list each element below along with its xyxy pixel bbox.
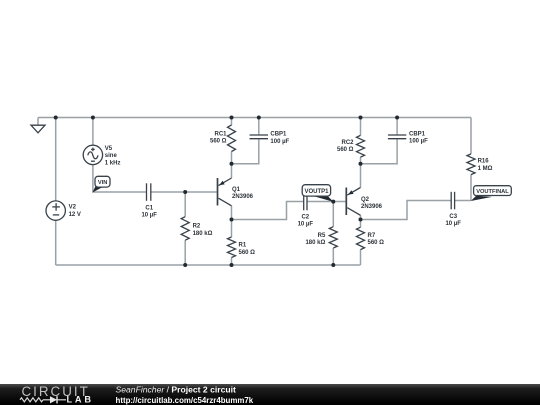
junction bottom rail / R2 — [183, 263, 187, 267]
wire V2 to top rail — [55, 118, 57, 201]
value label RC1 560 Ohm — [210, 131, 227, 144]
wire Q1 collector stub — [231, 206, 233, 220]
wire V5 to top rail — [92, 118, 94, 146]
capacitor C3 — [451, 192, 454, 210]
svg-text:R2: R2 — [193, 224, 201, 230]
wire Q1 emitter stub — [231, 164, 233, 178]
svg-text:CBP1: CBP1 — [270, 132, 287, 138]
svg-text:180 kΩ: 180 kΩ — [305, 240, 325, 246]
node VIN flag — [93, 176, 111, 192]
junction base wire / R2 — [183, 190, 187, 194]
wire Q1 collector to C2 — [232, 202, 304, 220]
node VOUTP1 flag — [302, 185, 333, 202]
svg-text:VIN: VIN — [98, 180, 107, 186]
resistor R7 — [357, 227, 365, 249]
wire RC2 leads — [360, 118, 362, 164]
svg-text:http://circuitlab.com/c54rzr4b: http://circuitlab.com/c54rzr4bumm7k — [116, 396, 254, 405]
svg-text:R16: R16 — [478, 159, 490, 165]
svg-text:Q2: Q2 — [361, 197, 370, 203]
ground — [31, 118, 45, 133]
CircuitLab logo resistor squiggle — [20, 398, 43, 402]
value label R1 560 Ohm — [239, 243, 256, 256]
CircuitLab logo diode — [50, 396, 57, 403]
wire V5 to node VIN and C1 — [93, 165, 147, 192]
svg-text:2N3906: 2N3906 — [232, 194, 254, 200]
svg-text:VOUTP1: VOUTP1 — [304, 189, 329, 195]
junction RC2 / CBP2 / Q2 emitter — [359, 162, 363, 166]
resistor RC1 — [228, 125, 236, 152]
wire top supply rail — [38, 117, 471, 119]
wire C3 to node VOUTFINAL — [455, 200, 471, 202]
wire R7 leads — [360, 220, 362, 266]
svg-text:560 Ω: 560 Ω — [368, 240, 385, 246]
value label R7 560 Ohm — [368, 233, 385, 246]
resistor R1 — [228, 237, 236, 258]
svg-text:LAB: LAB — [67, 395, 94, 405]
resistor R2 — [181, 217, 189, 241]
svg-text:RC2: RC2 — [341, 140, 354, 146]
capacitor CBP1 — [250, 135, 269, 139]
wire Q2 collector to C3 — [361, 201, 452, 220]
wire CBP1 leads — [232, 118, 259, 164]
svg-text:C2: C2 — [301, 214, 309, 220]
svg-text:100 µF: 100 µF — [270, 139, 289, 145]
wire C1 to Q1 base — [151, 191, 217, 193]
transistor Q2 (PNP 2N3906) — [346, 188, 360, 216]
svg-text:2N3906: 2N3906 — [361, 204, 383, 210]
svg-text:V5: V5 — [105, 146, 113, 152]
capacitor C2 — [304, 193, 307, 211]
resistor R16 — [467, 154, 475, 175]
svg-text:C3: C3 — [449, 214, 457, 220]
svg-text:10 µF: 10 µF — [141, 213, 157, 219]
node VOUTFINAL flag — [471, 186, 512, 201]
svg-text:560 Ω: 560 Ω — [210, 139, 227, 145]
svg-text:R5: R5 — [318, 233, 326, 239]
svg-text:R1: R1 — [239, 243, 247, 249]
junction top rail / V5 — [91, 116, 95, 120]
svg-text:10 µF: 10 µF — [445, 221, 461, 227]
value label V2 12 V — [69, 205, 81, 218]
node VOUTP1 junction — [331, 200, 335, 204]
value label R2 180 kOhm — [193, 224, 213, 237]
value label C1 10 uF — [141, 205, 157, 218]
junction top rail / CBP2 — [395, 116, 399, 120]
svg-text:1 kHz: 1 kHz — [105, 160, 121, 166]
svg-text:560 Ω: 560 Ω — [239, 250, 256, 256]
wire RC1 leads — [231, 118, 233, 164]
value label RC2 560 Ohm — [337, 140, 354, 153]
svg-text:SeanFincher / Project 2 circui: SeanFincher / Project 2 circuit — [116, 385, 237, 395]
resistor R5 — [329, 227, 337, 248]
junction top rail / RC1 — [230, 116, 234, 120]
wire bottom ground rail — [56, 264, 361, 266]
value label C3 10 uF — [445, 214, 461, 227]
value label CBP1 100 uF — [270, 132, 289, 145]
wire R5 leads — [332, 202, 334, 266]
junction RC1 / CBP1 / Q1 emitter — [230, 162, 234, 166]
junction top rail / RC2 — [359, 116, 363, 120]
junction Q2 collector / R7 — [359, 218, 363, 222]
svg-text:180 kΩ: 180 kΩ — [193, 231, 213, 237]
value label CBP2 100 uF — [409, 132, 428, 145]
capacitor C1 — [147, 183, 151, 201]
svg-text:C1: C1 — [145, 205, 153, 211]
footer bar — [0, 384, 540, 405]
wire R16 leads — [470, 118, 472, 201]
transistor Q1 (PNP 2N3906) — [218, 178, 232, 206]
svg-text:10 µF: 10 µF — [298, 222, 314, 228]
junction top rail / V2 — [54, 116, 58, 120]
svg-text:VOUTFINAL: VOUTFINAL — [476, 189, 509, 195]
svg-text:Q1: Q1 — [232, 187, 241, 193]
capacitor CBP2 — [388, 135, 406, 139]
value label V5 sine 1 kHz — [105, 146, 121, 167]
junction top rail / CBP1 — [257, 116, 261, 120]
svg-text:560 Ω: 560 Ω — [337, 147, 354, 153]
value label R16 1 MOhm — [478, 159, 493, 172]
svg-text:R7: R7 — [368, 233, 376, 239]
wire V2 to bottom rail — [55, 220, 57, 265]
value label Q2 2N3906 — [361, 197, 383, 210]
value label R5 180 kOhm — [305, 233, 325, 246]
voltage source V5 (sine) — [83, 145, 102, 164]
svg-text:CBP1: CBP1 — [409, 132, 426, 138]
junction Q1 collector / R1 — [230, 218, 234, 222]
svg-text:12 V: 12 V — [69, 212, 81, 218]
junction bottom rail / R5 — [331, 263, 335, 267]
wire Q2 emitter stub — [360, 164, 362, 188]
wire Q2 collector stub — [360, 215, 362, 219]
svg-text:RC1: RC1 — [214, 131, 227, 137]
resistor RC2 — [357, 135, 365, 157]
value label C2 10 uF — [298, 214, 314, 227]
svg-text:1 MΩ: 1 MΩ — [478, 166, 493, 172]
wire CBP2 leads — [361, 118, 398, 164]
svg-text:100 µF: 100 µF — [409, 139, 428, 145]
wire R1 leads — [231, 220, 233, 266]
svg-text:V2: V2 — [69, 205, 77, 211]
svg-text:sine: sine — [105, 153, 118, 159]
wire C2 to Q2 base — [307, 201, 346, 203]
value label Q1 2N3906 — [232, 187, 254, 200]
voltage source V2 — [46, 201, 65, 220]
junction bottom rail / R1 — [230, 263, 234, 267]
wire R2 leads — [184, 192, 186, 265]
